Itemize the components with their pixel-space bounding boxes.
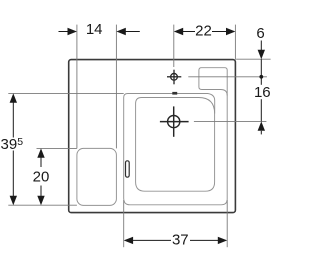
ext line faucet right (188, 76, 267, 78)
bowl floor outline (136, 98, 215, 192)
dimension 16 with chain dot (254, 59, 271, 134)
knockout dash on bowl top edge (172, 92, 177, 95)
ext line drain right (194, 120, 267, 122)
ext line bowl top left (8, 92, 123, 94)
svg-text:39: 39 (1, 136, 18, 153)
dimension 6 (256, 25, 265, 59)
dimension 14 (59, 21, 140, 38)
svg-text:6: 6 (256, 25, 264, 42)
bowl outer rim (124, 94, 215, 199)
dimension 22 (174, 23, 236, 40)
shelf (rounded rect bottom-left) (77, 148, 117, 205)
svg-text:22: 22 (195, 23, 212, 40)
ext line sink top right (236, 58, 271, 60)
ext line sink right up (234, 25, 236, 60)
svg-text:20: 20 (33, 168, 50, 185)
svg-text:14: 14 (86, 21, 103, 38)
extension lines (8, 25, 270, 248)
dimension 37 (124, 232, 228, 249)
ext line shelf right up (115, 25, 117, 149)
ext line shelf top left (37, 147, 77, 149)
ext line bottom left (8, 204, 77, 206)
dimension 39.5 (1, 93, 24, 205)
ext line bowl left down (123, 200, 125, 247)
drain crosshair (160, 106, 189, 136)
soap dish (199, 68, 227, 96)
overflow slot on left bowl wall (126, 161, 130, 177)
svg-text:5: 5 (17, 136, 23, 148)
ext line tap axis up (173, 25, 175, 67)
ext line shelf left up (76, 25, 78, 149)
sink outer outline (69, 60, 236, 213)
dimension 20 (33, 148, 50, 205)
svg-text:16: 16 (254, 84, 271, 101)
svg-text:37: 37 (172, 232, 189, 249)
ext line bowl right down (226, 200, 228, 247)
faucet hole crosshair (167, 70, 181, 85)
soap dish bottom edge (199, 87, 227, 96)
